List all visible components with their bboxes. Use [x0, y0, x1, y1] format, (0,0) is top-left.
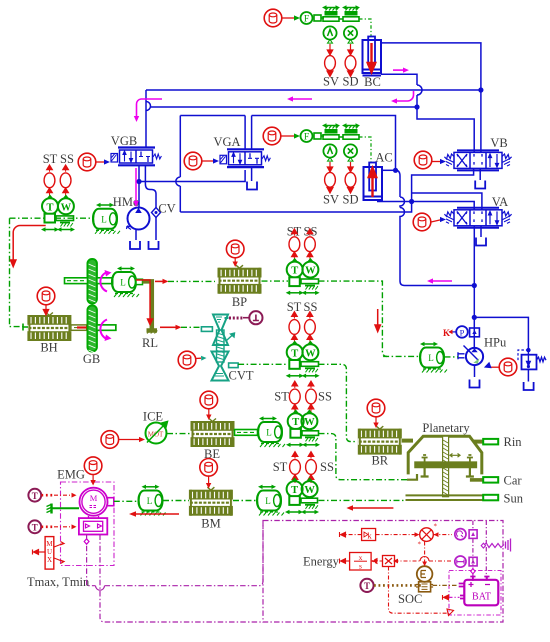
- BM source DB: [200, 459, 218, 477]
- svg-text:SD: SD: [343, 193, 359, 207]
- svg-text:K: K: [443, 328, 450, 338]
- clutch BR: [358, 426, 402, 455]
- inertia L (GB-RL): [112, 272, 139, 297]
- wire branch HPu-left: [405, 285, 475, 287]
- coupling chain to torque source: [229, 317, 243, 320]
- wire line A (VGB-VGA): [139, 170, 245, 182]
- carrier bar: [415, 462, 476, 467]
- mech dash RL to BP: [168, 280, 215, 282]
- valve VB: [444, 150, 511, 170]
- wire line T: [150, 107, 474, 152]
- torque input T1: [28, 489, 41, 502]
- integrator block x/s: [350, 553, 372, 571]
- mech dash g1 to HPu riser: [319, 281, 388, 356]
- BP source arrow: [234, 258, 236, 263]
- long wire line B: [180, 202, 411, 213]
- mech dash ICE-BE: [167, 433, 190, 435]
- mech dash BP to TW1: [262, 280, 289, 282]
- svg-text:VB: VB: [490, 136, 507, 150]
- signal arrow to SV2 oval: [327, 162, 332, 172]
- coupling box after F1: [314, 15, 321, 21]
- double arrows g2: [286, 374, 304, 378]
- planet pin right: [467, 455, 473, 462]
- port tick A1: [328, 40, 333, 44]
- svg-text:Sun: Sun: [504, 492, 524, 506]
- mech dash row4 to Sun: [319, 499, 407, 501]
- Car shaft right: [470, 478, 483, 482]
- ST oval left: [44, 165, 55, 197]
- shaft BR to ring: [402, 439, 414, 443]
- wire node to VA port A: [412, 202, 475, 210]
- red arrow RL top out: [155, 280, 163, 282]
- mech dash line left: [10, 217, 95, 219]
- MUX block: [45, 537, 64, 570]
- flow arrow m1: [136, 99, 162, 117]
- BP source DB: [226, 240, 244, 258]
- MUX output arrow: [38, 551, 45, 553]
- relief valve RV: [518, 348, 546, 382]
- pilot wire VGA: [202, 160, 215, 162]
- T base row4: [289, 496, 300, 505]
- svg-text:BM: BM: [201, 517, 220, 531]
- double arrow T left: [41, 227, 59, 231]
- wire link: [339, 136, 343, 138]
- svg-text:P: P: [460, 327, 465, 337]
- k output arrow: [345, 534, 362, 536]
- diamond junction bat: [471, 569, 475, 574]
- shaft BH-GB: [71, 325, 116, 330]
- red flow arrow down-left column (into BH): [11, 245, 16, 267]
- magenta arc arrow GB upper: [100, 272, 107, 292]
- mech dash into L from left: [383, 355, 419, 357]
- double arrow above L row4a: [142, 485, 160, 489]
- svg-text:BP: BP: [232, 295, 247, 309]
- pump HPu: [458, 346, 483, 366]
- BH source DB: [37, 287, 55, 305]
- svg-text:SD: SD: [343, 75, 359, 89]
- inverter down wire 2: [100, 535, 263, 623]
- pump source DB: [499, 358, 517, 376]
- svg-text:ICE: ICE: [143, 410, 164, 424]
- red flow arrow on shaft: [77, 326, 87, 328]
- svg-text:T: T: [291, 348, 298, 359]
- pilot source VA: [413, 213, 431, 231]
- node trunk-AC: [472, 283, 477, 288]
- actuator SV1: [322, 5, 340, 21]
- ring gear trapezoid: [408, 436, 482, 474]
- tank VGA: [247, 182, 257, 190]
- svg-text:VGA: VGA: [213, 135, 240, 149]
- wire main line P: [146, 89, 481, 91]
- svg-text:s: s: [359, 562, 362, 571]
- svg-text:X: X: [47, 556, 52, 564]
- svg-text:CV: CV: [158, 202, 175, 216]
- pilot wire VA: [431, 220, 442, 223]
- svg-text:Planetary: Planetary: [422, 421, 470, 435]
- Rin shaft: [474, 440, 484, 444]
- node trunk-relief: [472, 315, 477, 320]
- motor HMo: [127, 208, 150, 230]
- red flow curve left column: [11, 226, 46, 267]
- small double arrow planetary: [450, 454, 460, 458]
- svg-text:M: M: [46, 540, 53, 548]
- multiplier circle-x: [418, 523, 438, 549]
- signal dash to BC: [359, 19, 371, 36]
- wire link act1-act2: [339, 18, 343, 20]
- sensor W row3: [301, 410, 317, 429]
- W base row3: [302, 431, 319, 442]
- dc wire 2: [485, 521, 487, 582]
- T2 wire: [41, 525, 53, 528]
- clutch BP: [218, 265, 262, 294]
- svg-text:*: *: [434, 523, 438, 531]
- flow arrow m4: [292, 98, 312, 100]
- double arrows row4: [285, 510, 303, 514]
- tank HPu: [470, 380, 480, 388]
- torque source circle: [249, 311, 262, 324]
- rod lever RL: [143, 281, 158, 333]
- CVT upper pulley: [213, 315, 228, 346]
- accumulator AC: [364, 163, 383, 201]
- ST oval row4: [290, 452, 301, 484]
- carrier leg right: [466, 468, 474, 477]
- ground squiggle: [481, 539, 510, 552]
- node AC: [393, 168, 398, 173]
- wire signal to F1: [282, 17, 297, 19]
- BE source arrow: [208, 409, 210, 416]
- EMG source DB: [84, 457, 102, 475]
- T1 wire: [41, 494, 53, 497]
- svg-text:T: T: [292, 417, 299, 428]
- tank VB: [475, 181, 485, 189]
- wire VGB to CV: [145, 166, 156, 240]
- Car shaft left: [407, 474, 417, 480]
- actuator SD1: [342, 5, 360, 21]
- SD1 oval sink: [345, 56, 356, 71]
- SV2 oval sink: [325, 172, 336, 187]
- CVT output shaft: [229, 363, 239, 368]
- wire AC bottom: [377, 201, 412, 203]
- mech dash BM-L2: [233, 500, 256, 502]
- actuator SD2: [342, 123, 360, 139]
- pilot wire VGB: [96, 161, 106, 163]
- VA tank drop: [480, 226, 482, 237]
- svg-text:ST: ST: [274, 390, 289, 404]
- svg-text:T: T: [46, 202, 53, 213]
- svg-text:SS: SS: [320, 460, 334, 474]
- integrator SOC: [416, 566, 433, 592]
- wire VGB riser: [145, 90, 147, 147]
- valve VGB: [111, 148, 161, 166]
- gain k block: [362, 529, 376, 541]
- svg-text:F: F: [304, 15, 309, 25]
- dash X to integrator: [372, 559, 383, 564]
- sensor T g1: [287, 259, 303, 278]
- clutch BM: [189, 487, 233, 516]
- mech dash down-left column: [10, 218, 24, 326]
- red arrow RL bottom out: [160, 326, 176, 328]
- port tick X2: [348, 158, 353, 162]
- BE source DB: [200, 391, 218, 409]
- red flow arrow row4 left: [135, 513, 179, 515]
- ST oval g2: [289, 312, 300, 344]
- svg-text:BH: BH: [40, 341, 57, 355]
- clutch BE: [191, 419, 235, 448]
- SS oval row4: [306, 452, 317, 484]
- shaft GB lower-right stub: [97, 325, 116, 330]
- energy arrow: [340, 559, 346, 564]
- svg-text:W: W: [305, 266, 316, 277]
- engine ICE: [146, 422, 168, 444]
- svg-text:W: W: [304, 417, 315, 428]
- svg-text:BC: BC: [364, 75, 381, 89]
- T sensor SOC: [360, 579, 373, 592]
- BM source arrow: [208, 476, 210, 484]
- pilot source VB: [414, 151, 432, 169]
- inverter EMG: [79, 516, 107, 535]
- SV1 oval sink: [325, 56, 336, 71]
- pump source wire: [491, 366, 500, 368]
- svg-text:F: F: [304, 133, 309, 143]
- dc wire 1: [472, 521, 474, 582]
- SOC to BAT dash: [433, 584, 458, 586]
- wire HMo to tank: [135, 229, 137, 240]
- sensor circle X1: [344, 26, 357, 39]
- svg-text:W: W: [304, 485, 315, 496]
- svg-text:Rin: Rin: [504, 435, 523, 449]
- svg-text:ST: ST: [43, 152, 58, 166]
- pressure sensor P: [456, 326, 468, 338]
- pump tank drop: [474, 365, 476, 377]
- wire BC top to right: [381, 43, 481, 152]
- BAT inner dash box: [449, 571, 501, 616]
- signal arrow to SD2 oval: [348, 162, 353, 172]
- svg-text:M: M: [90, 493, 98, 503]
- big box left edge w/ hop: [176, 116, 180, 213]
- inverter down wire 1: [87, 525, 263, 586]
- svg-text:VGB: VGB: [111, 134, 137, 148]
- outer dash box: [263, 521, 503, 623]
- SS oval g1: [305, 229, 316, 261]
- CVT variator arrow: [227, 333, 235, 341]
- svg-text:SS: SS: [318, 390, 332, 404]
- valve VGA: [220, 149, 270, 167]
- pressure tap square: [470, 328, 480, 337]
- actuator SV2: [322, 123, 340, 139]
- inertia L row3: [258, 422, 285, 447]
- svg-text:W: W: [61, 202, 72, 213]
- big box top edges: [180, 116, 395, 171]
- sensor circle A1: [323, 26, 336, 39]
- port tick A2: [328, 158, 333, 162]
- diamond on wire 1: [84, 539, 89, 544]
- svg-text:AC: AC: [375, 151, 392, 165]
- sensor W row4: [302, 478, 318, 497]
- VGA tank drop: [251, 167, 253, 181]
- EMG dash box: [61, 482, 115, 566]
- magenta arc arrow GB lower: [100, 320, 107, 340]
- W base g2: [301, 362, 319, 373]
- red flow arrow row4 right: [352, 507, 393, 509]
- VB tank drop: [479, 168, 481, 180]
- svg-text:W: W: [305, 348, 316, 359]
- flow arrow m3: [396, 91, 414, 101]
- Sun shaft line: [406, 495, 484, 500]
- gear GB upper: [88, 259, 97, 307]
- shaft GB upper-right: [97, 278, 113, 284]
- double arrow above L-HMo: [96, 203, 114, 207]
- battery BAT: [459, 577, 499, 606]
- tank relief: [524, 382, 534, 390]
- CVT input shaft: [201, 327, 212, 332]
- coupling box after F2: [314, 133, 321, 139]
- svg-text:T: T: [291, 266, 298, 277]
- clutch BH: [27, 313, 71, 342]
- mech dash g2 to BR: [319, 364, 358, 441]
- double arrows row3: [286, 443, 304, 447]
- red flow path in RL: [136, 280, 153, 325]
- CVT source arrow: [196, 357, 202, 359]
- tank VA: [476, 238, 486, 246]
- BH input stub: [23, 324, 28, 331]
- node VA feed: [409, 199, 414, 204]
- central sun shaft hatched: [443, 436, 449, 497]
- double arrow W left: [57, 227, 75, 231]
- double arrow above L row3: [259, 416, 277, 420]
- double arrow above L-HPu: [420, 342, 438, 346]
- inertia L row4 b: [257, 491, 284, 516]
- ICE source DB: [101, 431, 119, 449]
- svg-text:U: U: [47, 548, 52, 556]
- svg-text:SV: SV: [323, 193, 339, 207]
- node VGB-A: [136, 179, 141, 184]
- ICE source wire: [119, 439, 140, 441]
- inertia L (HPu): [420, 348, 447, 373]
- BR source DB: [367, 399, 385, 417]
- svg-text:GB: GB: [83, 352, 100, 366]
- mech dash CVT out to TW2: [238, 363, 288, 365]
- sensor T g2: [287, 341, 303, 360]
- ST oval row3: [289, 381, 300, 413]
- trunk VA to HPu: [473, 226, 475, 348]
- double arrows g1: [286, 291, 304, 295]
- BR source arrow: [375, 417, 377, 423]
- flow arrow m5 VGB-HMo: [135, 168, 137, 202]
- svg-text:Energy: Energy: [303, 555, 340, 569]
- svg-text:Car: Car: [504, 474, 523, 488]
- svg-text:T: T: [364, 581, 370, 591]
- wire node to HPu branch vertical w/ hops: [396, 170, 475, 285]
- wire branch to VA port B: [412, 193, 482, 210]
- carrier leg left: [421, 468, 429, 477]
- svg-text:T: T: [291, 485, 298, 496]
- pilot source VGA: [184, 152, 202, 170]
- W base g1: [301, 279, 319, 290]
- wire AC right: [382, 169, 396, 171]
- valve VA: [444, 208, 511, 228]
- wire signal to F2: [281, 135, 296, 137]
- mech dash RL to CVT: [181, 326, 201, 328]
- T to SOC braid: [374, 584, 422, 587]
- port tick X1: [348, 40, 353, 44]
- mech ground EMG: [47, 504, 80, 514]
- double arrow above L-GB: [117, 266, 135, 270]
- sensor W g2: [302, 341, 318, 360]
- svg-text:T: T: [32, 491, 38, 501]
- dash multiplier to Q sensor: [433, 534, 452, 536]
- svg-text:ST: ST: [273, 460, 288, 474]
- data source DB2: [263, 127, 281, 145]
- signal arrow to SD oval: [348, 44, 353, 55]
- motor EMG: [80, 488, 114, 516]
- torque input T2: [28, 520, 41, 533]
- dash k to multiplier: [376, 534, 417, 536]
- SOC arrow: [443, 595, 449, 600]
- mech dash row3 to Car: [319, 434, 408, 480]
- svg-text:Tmax, Tmin: Tmax, Tmin: [27, 575, 90, 589]
- wire VB bottom to node: [412, 168, 474, 201]
- sensor circle X2: [344, 144, 357, 157]
- svg-text:*: *: [418, 541, 422, 549]
- voltage sensor V: [455, 556, 477, 567]
- check valve CV: [152, 208, 161, 218]
- svg-text:BAT: BAT: [472, 592, 491, 603]
- W base shaft: [56, 216, 74, 227]
- accumulator BC: [363, 37, 382, 76]
- svg-text:SS: SS: [60, 152, 74, 166]
- sensor T row4: [287, 478, 303, 497]
- CVT source DB: [178, 351, 196, 369]
- pilot source VGB: [78, 153, 96, 171]
- current sensor Q: [455, 529, 477, 540]
- tank CV: [149, 241, 159, 249]
- node BC-main: [478, 87, 483, 92]
- svg-text:T: T: [32, 523, 38, 533]
- tank HMo: [130, 241, 140, 249]
- gear GB lower: [88, 306, 97, 354]
- data source DB1: [264, 9, 282, 27]
- sensor W left: [58, 195, 74, 214]
- wire BC bottom over main: [381, 74, 422, 107]
- svg-text:HPu: HPu: [484, 336, 507, 350]
- svg-text:SV: SV: [323, 75, 339, 89]
- T base square: [45, 214, 56, 223]
- SD2 oval sink: [345, 172, 356, 187]
- shaft L-RL: [136, 279, 143, 284]
- BH source arrow: [43, 305, 48, 315]
- hop at VGB riser: [146, 102, 151, 111]
- sensor T row3: [288, 410, 304, 429]
- CVT belt: [217, 330, 225, 362]
- T base g1: [289, 277, 300, 286]
- flow arrow m6: [432, 280, 452, 282]
- CVT lower pulley: [212, 352, 229, 381]
- mech dash L to pump: [445, 356, 459, 358]
- svg-text:SOC: SOC: [398, 592, 422, 606]
- red flow arrow on riser: [375, 309, 380, 332]
- dash X to V sensor with hop: [395, 560, 453, 562]
- sensor T left: [42, 195, 58, 214]
- VGA top port risers: [245, 116, 252, 150]
- svg-text:RL: RL: [142, 336, 158, 350]
- shaft BE-L3: [235, 430, 258, 436]
- svg-text:BR: BR: [371, 454, 388, 468]
- ST oval g1: [289, 229, 300, 261]
- svg-text:MOT: MOT: [148, 431, 164, 439]
- inertia L (HMo shaft): [93, 209, 120, 234]
- wire VGB to HMo: [138, 166, 140, 208]
- SS oval left: [60, 165, 71, 197]
